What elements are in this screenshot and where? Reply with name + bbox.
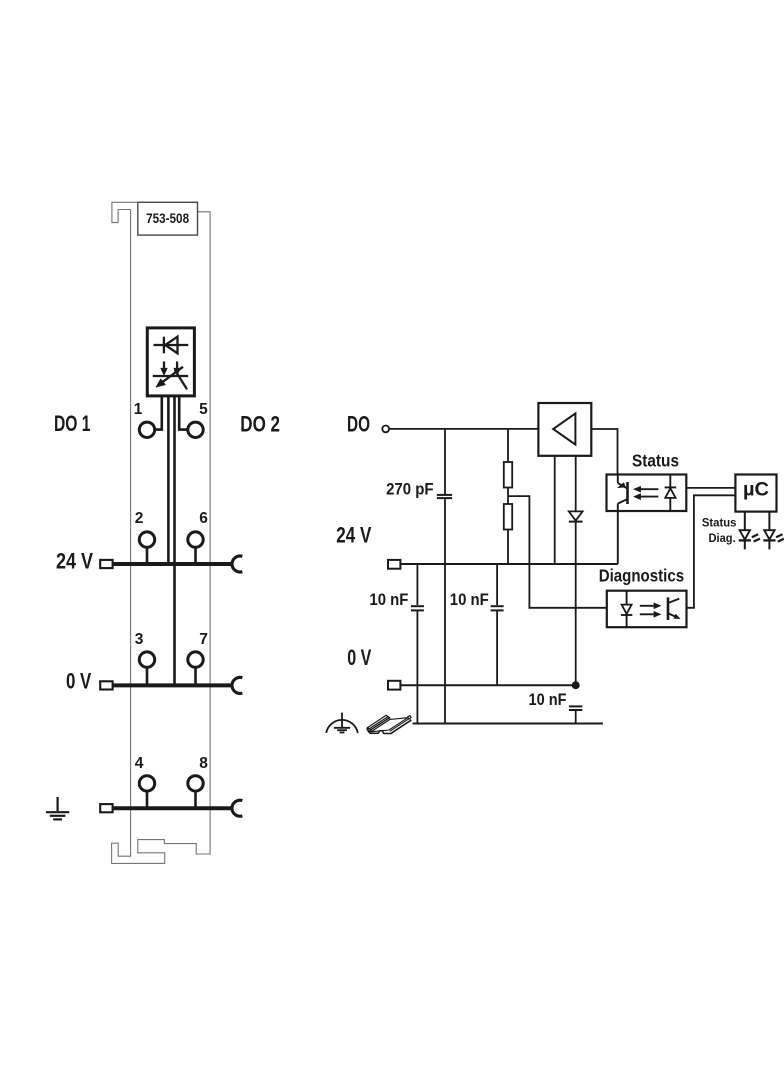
resistor R1 top wire — [507, 429, 509, 462]
svg-text:270 pF: 270 pF — [386, 480, 434, 499]
svg-text:DO 2: DO 2 — [240, 411, 280, 436]
diode D3 lower wire to 0V junction — [575, 522, 577, 686]
svg-text:2: 2 — [135, 510, 144, 527]
terminal 8 — [188, 776, 203, 791]
svg-text:µC: µC — [743, 480, 769, 501]
svg-text:0 V: 0 V — [66, 669, 92, 694]
module outline — [112, 202, 211, 863]
stem terminal 4 to ground bus — [146, 791, 149, 809]
label box 753-508 — [138, 202, 198, 235]
terminal 4 — [139, 776, 154, 791]
earth ground symbol left — [46, 797, 69, 820]
ground bus contact arc — [232, 800, 242, 816]
svg-text:6: 6 — [199, 510, 208, 527]
capacitor C3 10nF upper wire — [496, 564, 498, 605]
diagnostics LED D5 — [621, 591, 632, 628]
amplifier triangle — [553, 413, 575, 444]
wire from LED box to terminal 5 — [179, 396, 188, 430]
svg-text:3: 3 — [135, 631, 144, 648]
svg-text:10 nF: 10 nF — [529, 691, 567, 709]
capacitor C1 270pF — [437, 495, 452, 498]
svg-text:1: 1 — [134, 401, 143, 418]
status LED D4 — [665, 475, 677, 512]
24V square terminal right — [388, 560, 400, 569]
svg-text:10 nF: 10 nF — [450, 591, 489, 609]
capacitor C2 lower wire to earth rail — [416, 610, 418, 723]
ground square terminal — [100, 804, 112, 812]
wire from LED box to 24V bus — [167, 396, 170, 564]
capacitor C4 lower wire to earth rail — [575, 710, 577, 724]
24V bus wire — [113, 562, 232, 566]
capacitor C2 10nF upper wire — [416, 564, 418, 605]
LED D1 (top diode pointing left) — [154, 337, 189, 354]
diagnostics light arrows — [640, 603, 661, 617]
svg-text:10 nF: 10 nF — [369, 591, 408, 609]
ground bus wire — [113, 806, 232, 810]
wire from LED box to terminal 1 — [154, 396, 162, 430]
DO node circle — [382, 426, 389, 433]
capacitor C1 270pF branch wire upper — [444, 429, 446, 495]
svg-text:8: 8 — [199, 755, 208, 772]
svg-text:5: 5 — [199, 401, 208, 418]
terminal 7 — [188, 652, 203, 667]
capacitor C3 lower wire to 0V rail — [496, 610, 498, 685]
svg-text:7: 7 — [199, 631, 208, 648]
stem terminal 3 to 0V bus — [146, 667, 149, 686]
diagnostics phototransistor Q2 — [668, 597, 680, 620]
resistor R2 — [504, 504, 512, 530]
terminal 5 — [188, 422, 203, 437]
svg-text:Diagnostics: Diagnostics — [599, 565, 684, 585]
0V bus contact arc — [232, 677, 242, 693]
stem terminal 6 to 24V bus — [194, 547, 197, 564]
status phototransistor Q1 — [618, 475, 628, 565]
wire uC to diagnostics — [687, 495, 736, 608]
terminal 2 — [139, 532, 154, 547]
24V rail wire right — [400, 563, 617, 565]
stem terminal 2 to 24V bus — [146, 547, 149, 564]
amplifier output wire to status optocoupler — [591, 429, 617, 475]
svg-text:24 V: 24 V — [56, 549, 93, 574]
svg-text:4: 4 — [135, 755, 144, 772]
wire between R1 and R2 — [507, 488, 509, 505]
svg-text:Status: Status — [632, 451, 679, 471]
svg-text:DO 1: DO 1 — [54, 411, 91, 436]
DO wire to amplifier — [389, 428, 538, 430]
wire status to uC — [686, 487, 735, 489]
diag LED indicator D7 — [763, 512, 784, 550]
capacitor C3 10nF — [491, 606, 504, 610]
DIN rail symbol — [367, 715, 411, 733]
terminal 3 — [139, 652, 154, 667]
0V square terminal right — [388, 681, 400, 690]
0V rail wire right — [400, 684, 575, 686]
capacitor C2 10nF — [411, 606, 424, 610]
stem terminal 8 to ground bus — [194, 791, 197, 809]
svg-text:DO: DO — [347, 411, 370, 436]
capacitor C1 lower wire to earth rail — [444, 498, 446, 723]
24V square terminal — [100, 560, 112, 568]
svg-text:24 V: 24 V — [336, 523, 371, 548]
terminal 1 — [139, 422, 154, 437]
diode D3 — [569, 511, 583, 521]
capacitor C4 10nF — [569, 706, 582, 710]
amplifier U2 box — [538, 403, 591, 456]
amplifier left bottom wire to 24V rail — [554, 456, 556, 564]
junction node dot — [572, 681, 580, 689]
LED D2 (bottom symbol with arrows) — [153, 362, 188, 390]
status LED indicator D6 — [739, 512, 760, 550]
microcontroller uC box — [735, 475, 776, 512]
status optocoupler U3 box — [607, 475, 687, 512]
stem terminal 7 to 0V bus — [194, 667, 197, 686]
terminal 6 — [188, 532, 203, 547]
wire from LED box to 0V bus — [173, 396, 176, 686]
earth ground symbol right — [326, 713, 358, 733]
LED box U1 — [147, 328, 194, 396]
diagnostics optocoupler U4 box — [607, 591, 687, 628]
wire from divider tap to diagnostics optocoupler — [508, 496, 607, 608]
wire R2 bottom to 24V rail — [507, 530, 509, 565]
svg-text:Diag.: Diag. — [709, 533, 736, 545]
earth rail wire — [413, 723, 603, 725]
24V bus contact arc — [232, 556, 242, 572]
resistor R1 — [504, 462, 512, 488]
0V square terminal — [100, 681, 112, 689]
0V bus wire — [113, 683, 232, 687]
svg-text:0 V: 0 V — [347, 645, 371, 670]
svg-text:753-508: 753-508 — [146, 211, 189, 226]
amplifier right bottom wire to diode D3 — [575, 456, 577, 512]
svg-text:Status: Status — [702, 517, 737, 529]
status light arrows — [634, 486, 659, 499]
